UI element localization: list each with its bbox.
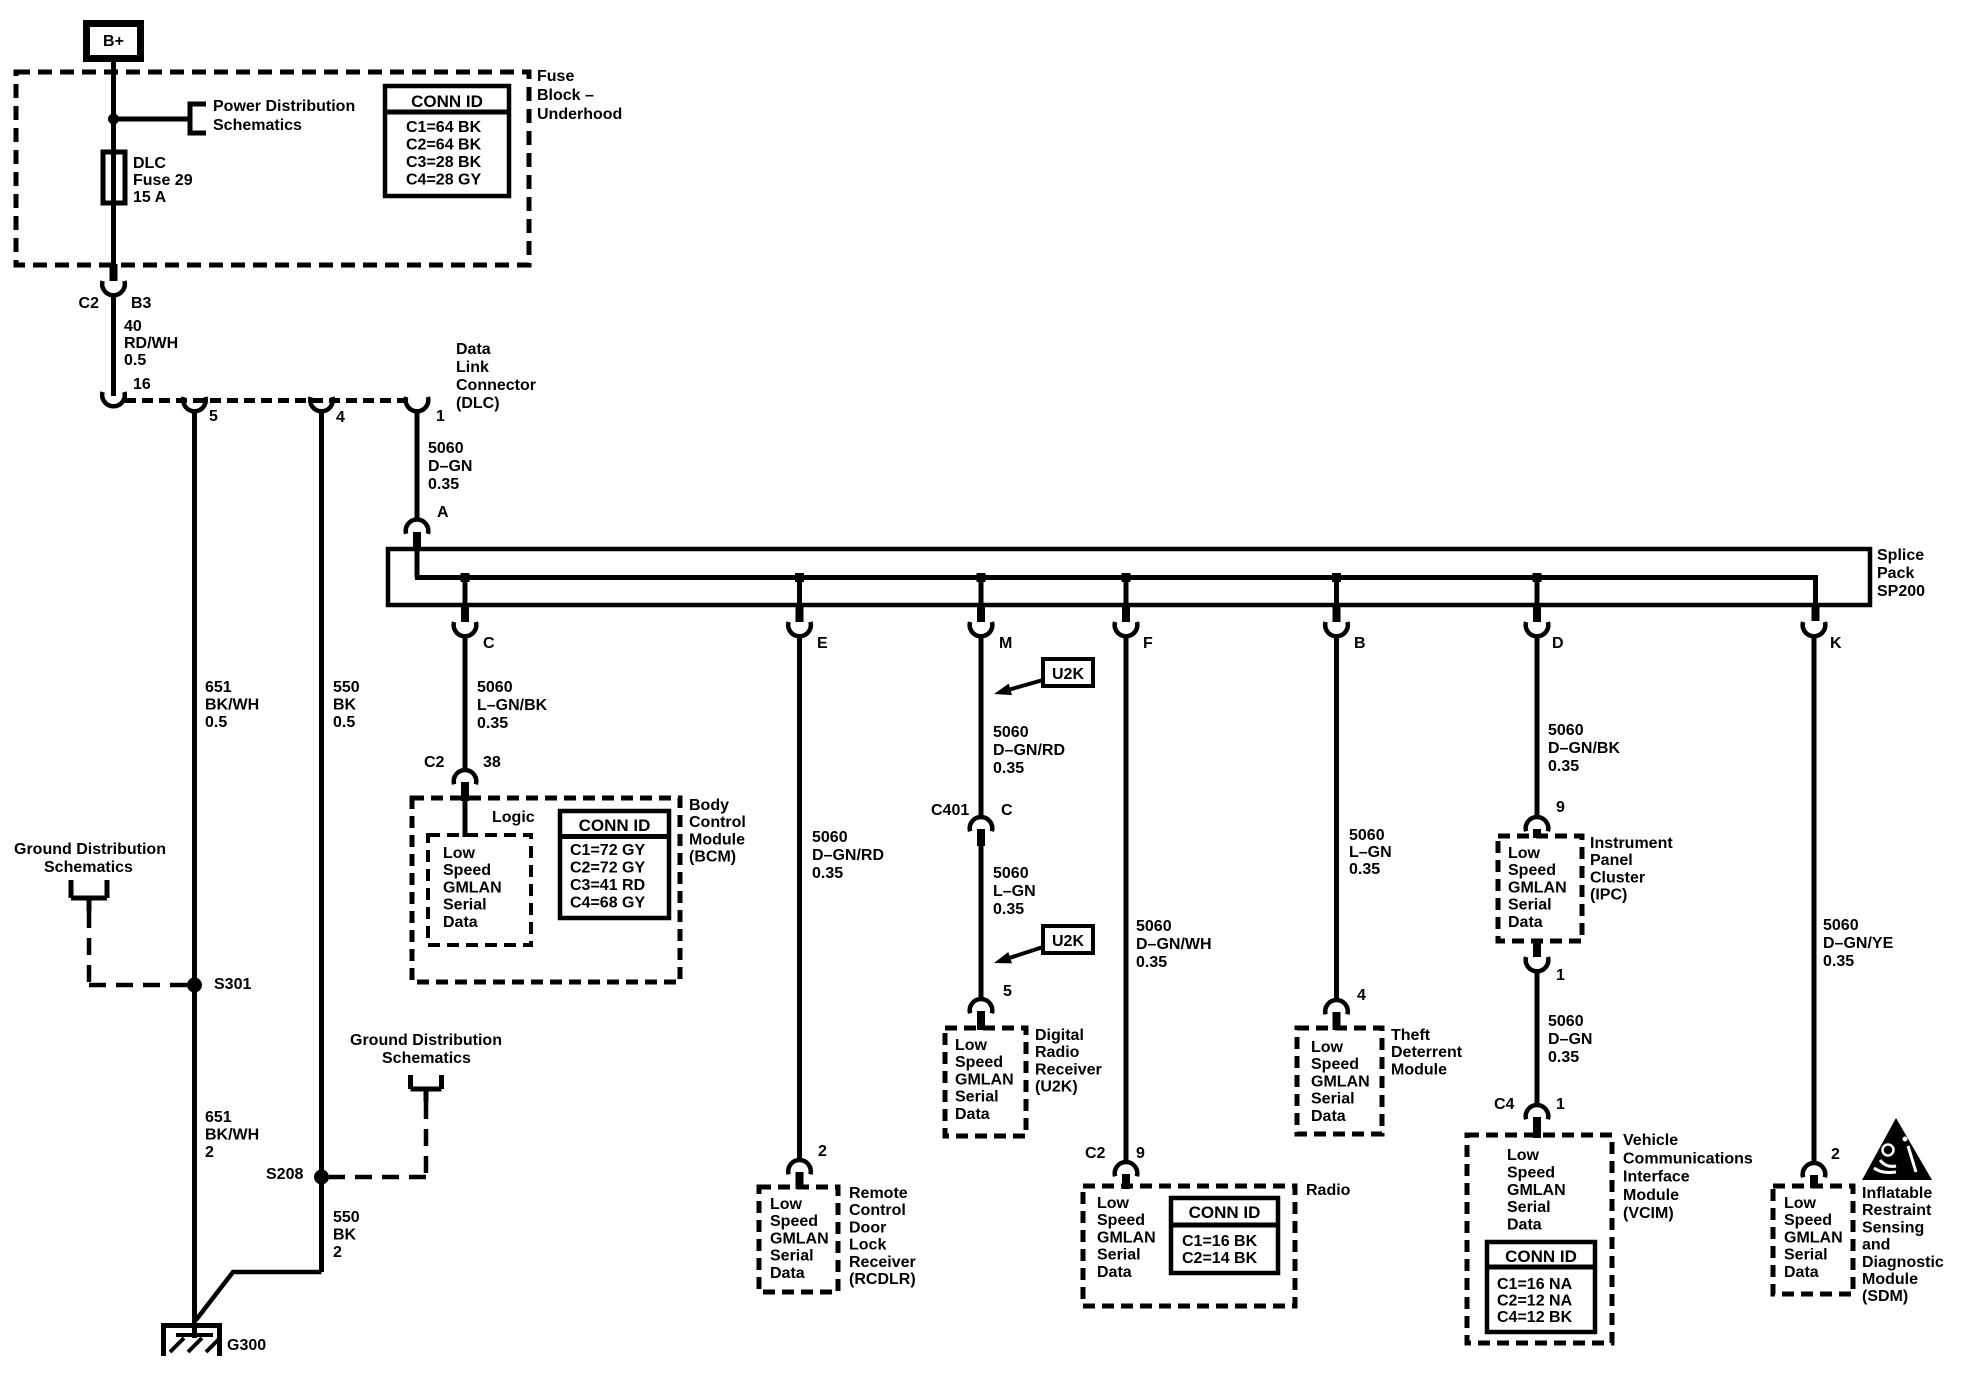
svg-text:4: 4 <box>1357 987 1366 1004</box>
svg-text:C: C <box>483 635 495 652</box>
svg-text:5060: 5060 <box>1823 917 1859 934</box>
svg-text:Fuse 29: Fuse 29 <box>133 172 193 189</box>
wire 550 BK to ground <box>196 1272 322 1320</box>
svg-text:5060: 5060 <box>477 679 513 696</box>
svg-text:Serial: Serial <box>1508 897 1552 914</box>
svg-text:GMLAN: GMLAN <box>1784 1229 1843 1246</box>
svg-text:GMLAN: GMLAN <box>1311 1073 1370 1090</box>
B+ terminal <box>87 24 141 59</box>
splice S208 <box>266 1166 329 1185</box>
svg-text:A: A <box>437 504 449 521</box>
svg-text:Serial: Serial <box>1311 1091 1355 1108</box>
svg-text:L–GN: L–GN <box>993 883 1036 900</box>
svg-text:0.5: 0.5 <box>124 352 146 369</box>
svg-text:(RCDLR): (RCDLR) <box>849 1271 916 1288</box>
Radio box <box>1083 1186 1295 1306</box>
svg-text:C1=16 BK: C1=16 BK <box>1182 1233 1258 1250</box>
wire 40 RD/WH 0.5 <box>114 295 179 396</box>
splice drop B <box>1325 579 1348 636</box>
svg-text:Data: Data <box>1784 1264 1819 1281</box>
wire 5060 D-GN/YE 0.35 <box>1814 635 1894 1163</box>
svg-text:0.35: 0.35 <box>812 865 843 882</box>
splice junction M <box>977 573 986 582</box>
svg-text:Interface: Interface <box>1623 1169 1690 1186</box>
svg-text:Serial: Serial <box>443 897 487 914</box>
svg-text:Panel: Panel <box>1590 852 1633 869</box>
svg-text:D–GN/RD: D–GN/RD <box>812 847 884 864</box>
svg-text:Low: Low <box>1507 1147 1540 1164</box>
DLC pin 1 <box>406 397 445 425</box>
svg-text:C2=64 BK: C2=64 BK <box>406 137 482 154</box>
svg-text:C4=28 GY: C4=28 GY <box>406 172 481 189</box>
connector pin 4 (Theft) <box>1325 987 1366 1030</box>
wire 651 BK/WH <box>195 411 260 1338</box>
connector C4 pin 1 (VCIM) <box>1494 1096 1565 1138</box>
svg-text:Low: Low <box>1097 1195 1130 1212</box>
svg-text:5060: 5060 <box>812 829 848 846</box>
svg-text:C3=28 BK: C3=28 BK <box>406 154 482 171</box>
svg-text:38: 38 <box>483 754 501 771</box>
svg-text:Low: Low <box>443 845 476 862</box>
svg-text:D–GN: D–GN <box>1548 1031 1592 1048</box>
svg-text:CONN ID: CONN ID <box>579 816 651 835</box>
svg-text:BK: BK <box>333 1227 357 1244</box>
connector C2 pin 38 (BCM) <box>424 754 501 801</box>
svg-text:GMLAN: GMLAN <box>770 1230 829 1247</box>
svg-text:Door: Door <box>849 1219 886 1236</box>
svg-text:Speed: Speed <box>1097 1212 1145 1229</box>
svg-text:Radio: Radio <box>1035 1044 1080 1061</box>
svg-text:C2: C2 <box>1085 1145 1106 1162</box>
svg-text:G300: G300 <box>227 1337 266 1354</box>
svg-text:Fuse: Fuse <box>537 68 574 85</box>
svg-text:CONN ID: CONN ID <box>411 92 483 111</box>
svg-text:(U2K): (U2K) <box>1035 1079 1078 1096</box>
svg-text:Block –: Block – <box>537 87 594 104</box>
connector C401 pin C <box>931 802 1013 846</box>
svg-text:0.5: 0.5 <box>333 714 355 731</box>
splice S301 <box>187 976 251 993</box>
svg-text:S301: S301 <box>214 976 251 993</box>
svg-text:Remote: Remote <box>849 1185 908 1202</box>
svg-text:5060: 5060 <box>993 724 1029 741</box>
svg-text:CONN ID: CONN ID <box>1189 1203 1261 1222</box>
svg-text:DLC: DLC <box>133 155 166 172</box>
svg-text:15 A: 15 A <box>133 189 167 206</box>
svg-text:Low: Low <box>1784 1195 1817 1212</box>
svg-text:0.35: 0.35 <box>1349 861 1380 878</box>
connector pin 2 (SDM) <box>1803 1146 1840 1188</box>
svg-text:L–GN/BK: L–GN/BK <box>477 697 548 714</box>
svg-text:B: B <box>1354 635 1366 652</box>
wire B+ to fuse <box>111 60 116 264</box>
svg-text:Receiver: Receiver <box>849 1254 916 1271</box>
svg-text:Speed: Speed <box>1311 1056 1359 1073</box>
svg-text:Schematics: Schematics <box>382 1050 471 1067</box>
splice drop E <box>788 579 811 636</box>
svg-text:9: 9 <box>1136 1145 1145 1162</box>
svg-text:Cluster: Cluster <box>1590 869 1645 886</box>
svg-text:(DLC): (DLC) <box>456 395 500 412</box>
svg-text:0.35: 0.35 <box>1548 758 1579 775</box>
svg-text:Diagnostic: Diagnostic <box>1862 1254 1944 1271</box>
Low Speed GMLAN Serial Data box (RCDLR) <box>759 1187 838 1292</box>
svg-text:C1=72 GY: C1=72 GY <box>570 842 645 859</box>
svg-text:C1=64 BK: C1=64 BK <box>406 119 482 136</box>
svg-text:5060: 5060 <box>1548 1013 1584 1030</box>
svg-text:D–GN/RD: D–GN/RD <box>993 742 1065 759</box>
wire 5060 L-GN 0.35 (B) <box>1337 635 1392 1000</box>
wire 5060 D-GN 0.35 (D lower) <box>1537 969 1592 1105</box>
svg-text:C2=72 GY: C2=72 GY <box>570 860 645 877</box>
svg-text:16: 16 <box>133 376 151 393</box>
svg-text:0.35: 0.35 <box>993 901 1024 918</box>
svg-text:Digital: Digital <box>1035 1027 1084 1044</box>
svg-text:F: F <box>1143 635 1153 652</box>
svg-text:D–GN/BK: D–GN/BK <box>1548 740 1620 757</box>
svg-text:2: 2 <box>1831 1146 1840 1163</box>
svg-text:B+: B+ <box>103 33 124 50</box>
IPC label <box>1590 835 1673 904</box>
svg-text:Logic: Logic <box>492 809 535 826</box>
connector pin 1 below IPC <box>1526 941 1565 984</box>
svg-text:2: 2 <box>818 1143 827 1160</box>
Fuse Block - Underhood dashed box <box>16 72 529 265</box>
DLC pin 4 <box>310 397 345 426</box>
svg-text:Ground Distribution: Ground Distribution <box>350 1032 502 1049</box>
svg-text:Body: Body <box>689 797 729 814</box>
svg-text:Serial: Serial <box>955 1089 999 1106</box>
svg-text:Deterrent: Deterrent <box>1391 1044 1463 1061</box>
svg-text:0.35: 0.35 <box>1136 954 1167 971</box>
svg-text:Serial: Serial <box>1507 1199 1551 1216</box>
svg-text:B3: B3 <box>131 295 152 312</box>
svg-text:RD/WH: RD/WH <box>124 335 178 352</box>
svg-text:C: C <box>1001 802 1013 819</box>
SIR warning triangle <box>1862 1118 1932 1180</box>
svg-text:Speed: Speed <box>1508 862 1556 879</box>
svg-text:1: 1 <box>1556 1096 1565 1113</box>
junction node <box>108 114 119 125</box>
wire 5060 D-GN/RD 0.35 (E) <box>800 635 885 1160</box>
svg-text:40: 40 <box>124 318 142 335</box>
wire 5060 L-GN 0.35 <box>981 846 1036 999</box>
svg-text:Speed: Speed <box>1507 1164 1555 1181</box>
Fuse Block label <box>537 68 622 123</box>
svg-text:0.35: 0.35 <box>477 715 508 732</box>
connector K cup <box>1803 622 1826 636</box>
Body Control Module box <box>412 798 680 982</box>
splice drop D <box>1526 579 1549 636</box>
svg-text:550: 550 <box>333 679 360 696</box>
svg-text:D: D <box>1552 635 1564 652</box>
SDM label <box>1862 1185 1944 1305</box>
svg-text:L–GN: L–GN <box>1349 844 1392 861</box>
svg-text:Link: Link <box>456 359 489 376</box>
svg-text:C4=12 BK: C4=12 BK <box>1497 1309 1573 1326</box>
svg-text:and: and <box>1862 1237 1890 1254</box>
svg-text:0.35: 0.35 <box>993 760 1024 777</box>
splice drop F <box>1115 579 1138 636</box>
svg-text:0.35: 0.35 <box>1548 1049 1579 1066</box>
svg-text:Data: Data <box>443 914 478 931</box>
connector A <box>406 504 449 551</box>
svg-text:Power Distribution: Power Distribution <box>213 98 355 115</box>
Radio label <box>1306 1182 1351 1199</box>
IPC box <box>1498 836 1582 941</box>
svg-text:Schematics: Schematics <box>213 117 302 134</box>
svg-text:Control: Control <box>849 1202 906 1219</box>
svg-text:Underhood: Underhood <box>537 106 622 123</box>
svg-text:5060: 5060 <box>993 865 1029 882</box>
U2K arrow 2 <box>994 947 1043 963</box>
svg-text:Low: Low <box>1508 845 1541 862</box>
svg-text:5060: 5060 <box>428 440 464 457</box>
VCIM box <box>1467 1135 1612 1343</box>
svg-text:C3=41 RD: C3=41 RD <box>570 877 645 894</box>
svg-text:0.5: 0.5 <box>205 714 227 731</box>
Splice Pack SP200 box <box>388 547 1925 605</box>
svg-text:Low: Low <box>955 1037 988 1054</box>
svg-text:Data: Data <box>1097 1264 1132 1281</box>
svg-text:D–GN/WH: D–GN/WH <box>1136 936 1212 953</box>
svg-text:5060: 5060 <box>1136 918 1172 935</box>
svg-text:C4=68 GY: C4=68 GY <box>570 895 645 912</box>
svg-text:S208: S208 <box>266 1166 303 1183</box>
svg-text:5060: 5060 <box>1349 827 1385 844</box>
svg-text:4: 4 <box>336 409 345 426</box>
svg-text:Low: Low <box>770 1196 803 1213</box>
svg-text:651: 651 <box>205 1109 232 1126</box>
svg-text:2: 2 <box>205 1144 214 1161</box>
svg-text:0.35: 0.35 <box>428 476 459 493</box>
svg-text:U2K: U2K <box>1052 933 1084 950</box>
svg-text:SP200: SP200 <box>1877 583 1925 600</box>
connector C2 pin 9 (Radio) <box>1085 1145 1145 1189</box>
splice junction F <box>1122 573 1131 582</box>
wire into BCM logic <box>463 801 468 837</box>
svg-text:Control: Control <box>689 814 746 831</box>
svg-text:C2=12 NA: C2=12 NA <box>1497 1293 1573 1310</box>
svg-text:C401: C401 <box>931 802 969 819</box>
DLC dashed harness line <box>125 398 406 403</box>
svg-text:BK/WH: BK/WH <box>205 1127 259 1144</box>
splice junction E <box>795 573 804 582</box>
svg-text:Low: Low <box>1311 1039 1344 1056</box>
node M label <box>999 635 1012 652</box>
CONN ID table Radio <box>1171 1198 1278 1273</box>
svg-text:Data: Data <box>1311 1108 1346 1125</box>
DLC connector pin 16 <box>102 392 125 406</box>
svg-text:Inflatable: Inflatable <box>1862 1185 1932 1202</box>
svg-text:Radio: Radio <box>1306 1182 1351 1199</box>
svg-text:C4: C4 <box>1494 1096 1515 1113</box>
svg-text:Data: Data <box>456 341 491 358</box>
svg-text:550: 550 <box>333 1209 360 1226</box>
CONN ID table VCIM <box>1487 1242 1595 1332</box>
svg-text:C2: C2 <box>79 295 100 312</box>
svg-text:651: 651 <box>205 679 232 696</box>
svg-text:Speed: Speed <box>770 1213 818 1230</box>
node E label <box>817 635 828 652</box>
wire 5060 D-GN/BK 0.35 <box>1537 635 1620 817</box>
splice junction C <box>461 573 470 582</box>
svg-text:5: 5 <box>209 408 218 425</box>
connector C2 pin B3 <box>79 264 152 312</box>
svg-text:Data: Data <box>955 1106 990 1123</box>
svg-text:Instrument: Instrument <box>1590 835 1673 852</box>
svg-text:Communications: Communications <box>1623 1150 1753 1167</box>
svg-text:5060: 5060 <box>1548 722 1584 739</box>
svg-text:(SDM): (SDM) <box>1862 1288 1908 1305</box>
svg-text:Speed: Speed <box>1784 1212 1832 1229</box>
svg-text:E: E <box>817 635 828 652</box>
Digital Radio Receiver label <box>1035 1027 1102 1096</box>
node B label <box>1354 635 1366 652</box>
splice junction B <box>1332 573 1341 582</box>
svg-text:Serial: Serial <box>1097 1247 1141 1264</box>
svg-text:(IPC): (IPC) <box>1590 887 1627 904</box>
svg-text:GMLAN: GMLAN <box>1097 1229 1156 1246</box>
Data Link Connector label <box>456 341 536 412</box>
svg-text:Speed: Speed <box>443 862 491 879</box>
splice junction D <box>1533 573 1542 582</box>
ground G300 <box>164 1326 267 1357</box>
svg-text:(VCIM): (VCIM) <box>1623 1205 1674 1222</box>
svg-text:Theft: Theft <box>1391 1027 1431 1044</box>
svg-text:Serial: Serial <box>770 1248 814 1265</box>
node D label <box>1552 635 1564 652</box>
Logic label <box>492 809 535 826</box>
Ground Distribution Schematics (right) <box>329 1032 502 1177</box>
node C label <box>483 635 495 652</box>
svg-text:Vehicle: Vehicle <box>1623 1132 1678 1149</box>
svg-text:Restraint: Restraint <box>1862 1202 1932 1219</box>
svg-text:GMLAN: GMLAN <box>1508 879 1567 896</box>
wire 5060 D-GN/RD (M upper) <box>981 635 1065 817</box>
svg-text:Speed: Speed <box>955 1054 1003 1071</box>
svg-text:C2: C2 <box>424 754 445 771</box>
RCDLR label <box>849 1185 916 1288</box>
Theft Deterrent Module label <box>1391 1027 1463 1078</box>
svg-text:0.35: 0.35 <box>1823 953 1854 970</box>
svg-text:Pack: Pack <box>1877 565 1914 582</box>
Low Speed GMLAN Serial Data box (SDM) <box>1773 1186 1853 1294</box>
svg-text:Connector: Connector <box>456 377 536 394</box>
svg-text:1: 1 <box>1556 967 1565 984</box>
VCIM label <box>1623 1132 1753 1222</box>
splice drop M <box>970 579 993 636</box>
splice bus wire <box>415 551 1820 621</box>
svg-text:C1=16 NA: C1=16 NA <box>1497 1276 1573 1293</box>
svg-text:Lock: Lock <box>849 1237 886 1254</box>
svg-text:D–GN: D–GN <box>428 458 472 475</box>
svg-text:Module: Module <box>1862 1271 1918 1288</box>
wire to power distribution <box>114 117 189 122</box>
svg-text:Schematics: Schematics <box>44 859 133 876</box>
svg-text:U2K: U2K <box>1052 666 1084 683</box>
svg-text:Data: Data <box>1508 914 1543 931</box>
svg-text:Module: Module <box>689 831 745 848</box>
svg-text:Data: Data <box>770 1265 805 1282</box>
U2K callout box 1 <box>1043 659 1093 686</box>
node K label <box>1830 635 1842 652</box>
svg-text:BK: BK <box>333 697 357 714</box>
CONN ID table fuse block <box>385 86 509 196</box>
svg-text:Data: Data <box>1507 1217 1542 1234</box>
svg-text:1: 1 <box>436 408 445 425</box>
svg-text:CONN ID: CONN ID <box>1505 1247 1577 1266</box>
splice drop C <box>454 579 477 636</box>
svg-text:BK/WH: BK/WH <box>205 697 259 714</box>
svg-text:Ground Distribution: Ground Distribution <box>14 841 166 858</box>
connector pin 2 (RCDLR) <box>788 1143 827 1189</box>
svg-text:K: K <box>1830 635 1842 652</box>
wire 5060 L-GN/BK 0.35 <box>465 635 548 770</box>
svg-text:GMLAN: GMLAN <box>1507 1182 1566 1199</box>
svg-text:Serial: Serial <box>1784 1247 1828 1264</box>
svg-text:5: 5 <box>1003 983 1012 1000</box>
svg-text:C2=14 BK: C2=14 BK <box>1182 1250 1258 1267</box>
BCM label <box>689 797 746 866</box>
svg-text:GMLAN: GMLAN <box>443 879 502 896</box>
node F label <box>1143 635 1153 652</box>
Ground Distribution Schematics (left) <box>14 841 188 985</box>
wire 5060 D-GN 0.35 <box>417 411 472 520</box>
DLC pin 5 <box>183 397 218 425</box>
U2K arrow 1 <box>994 680 1043 695</box>
svg-text:Module: Module <box>1623 1187 1679 1204</box>
U2K callout box 2 <box>1043 926 1093 953</box>
svg-text:GMLAN: GMLAN <box>955 1071 1014 1088</box>
svg-text:9: 9 <box>1556 799 1565 816</box>
svg-text:Module: Module <box>1391 1061 1447 1078</box>
svg-text:D–GN/YE: D–GN/YE <box>1823 935 1894 952</box>
Low Speed GMLAN Serial Data box (U2K) <box>945 1028 1026 1136</box>
connector pin 9 (IPC) <box>1526 799 1565 838</box>
connector pin 5 (U2K) <box>970 983 1012 1030</box>
svg-text:Splice: Splice <box>1877 547 1924 564</box>
Low Speed GMLAN Serial Data box (Theft) <box>1297 1028 1382 1134</box>
svg-text:(BCM): (BCM) <box>689 849 736 866</box>
svg-text:2: 2 <box>333 1244 342 1261</box>
wire 550 BK <box>322 411 360 1272</box>
wire 5060 D-GN/WH 0.35 <box>1126 635 1212 1162</box>
svg-text:Receiver: Receiver <box>1035 1061 1102 1078</box>
CONN ID table BCM <box>560 811 669 918</box>
Low Speed GMLAN Serial Data box (BCM) <box>428 835 531 945</box>
svg-text:M: M <box>999 635 1012 652</box>
Power Distribution Schematics bracket <box>190 98 355 134</box>
svg-text:Sensing: Sensing <box>1862 1219 1924 1236</box>
fuse DLC Fuse 29 15 A <box>103 152 193 206</box>
